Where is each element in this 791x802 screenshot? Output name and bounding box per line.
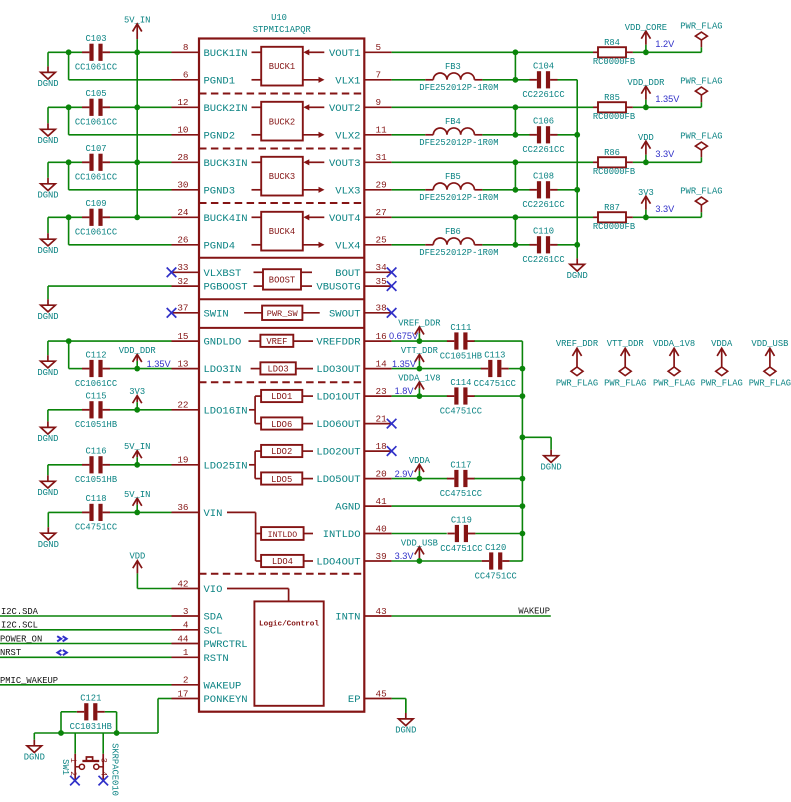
svg-text:DGND: DGND <box>541 463 562 473</box>
junction VDD <box>643 159 649 165</box>
ground DGND <box>37 286 58 322</box>
svg-text:BUCK1: BUCK1 <box>269 62 295 72</box>
wire LDO16IN <box>110 409 172 411</box>
svg-text:BUCK3: BUCK3 <box>269 172 295 182</box>
pin 28 BUCK3IN <box>172 152 248 170</box>
svg-text:C114: C114 <box>450 378 471 388</box>
wire BUCK input row C105 <box>110 106 172 108</box>
wire C121 left leg <box>61 712 77 733</box>
svg-text:BUCK2IN: BUCK2IN <box>204 103 248 115</box>
svg-text:DGND: DGND <box>38 540 59 550</box>
svg-text:VDD_USB: VDD_USB <box>401 538 438 548</box>
pin 38 SWOUT <box>329 303 392 321</box>
junction <box>417 476 423 482</box>
wire VOUT2 to VLX2 <box>514 107 516 135</box>
power symbol VDDA with PWR_FLAG <box>701 339 743 389</box>
svg-text:LDO6: LDO6 <box>271 420 292 430</box>
wire FB5 out <box>482 189 529 191</box>
resistor R86 <box>593 148 635 177</box>
svg-text:R86: R86 <box>604 148 620 158</box>
wire VOUT1 to VLX1 <box>514 52 516 80</box>
svg-text:CC2261CC: CC2261CC <box>522 90 564 100</box>
svg-text:SKRPACE010: SKRPACE010 <box>110 743 120 796</box>
svg-text:15: 15 <box>177 331 188 342</box>
svg-text:VDD_DDR: VDD_DDR <box>627 78 665 88</box>
svg-text:LDO3: LDO3 <box>268 365 289 375</box>
capacitor C120 <box>475 543 517 582</box>
wire PONKEYN <box>34 699 171 734</box>
svg-text:1.35V: 1.35V <box>392 359 417 369</box>
internal block LDO1 <box>261 390 313 402</box>
voltage label 0.675V <box>389 331 419 341</box>
ferrite bead FB4 <box>419 117 498 148</box>
svg-text:I2C.SCL: I2C.SCL <box>1 621 38 631</box>
power symbol 3V3 <box>129 387 145 410</box>
internal block BUCK1 <box>252 47 325 86</box>
junction <box>134 462 140 468</box>
wire VOUT4 <box>392 216 593 218</box>
svg-text:2: 2 <box>68 771 78 776</box>
svg-text:C121: C121 <box>80 694 101 704</box>
no-connect X <box>387 281 397 291</box>
svg-text:9: 9 <box>376 97 382 108</box>
pin 11 VLX2 <box>335 125 391 143</box>
svg-text:LDO4: LDO4 <box>272 557 293 567</box>
svg-text:VOUT1: VOUT1 <box>329 48 361 60</box>
junction <box>66 49 72 55</box>
svg-text:5: 5 <box>376 42 382 53</box>
junction <box>520 434 526 440</box>
svg-text:PWR_FLAG: PWR_FLAG <box>680 21 722 31</box>
svg-text:DGND: DGND <box>395 726 416 736</box>
junction <box>58 730 64 736</box>
voltage label 3.3V <box>655 149 675 159</box>
svg-text:38: 38 <box>376 303 387 314</box>
wire LDO25IN <box>110 464 172 466</box>
pin 41 AGND <box>335 496 391 514</box>
power symbol 5V_IN <box>124 490 150 513</box>
svg-text:INTLDO: INTLDO <box>323 529 361 541</box>
svg-text:DGND: DGND <box>37 312 58 322</box>
ground DGND <box>395 699 416 736</box>
wire LDO caps ground bus <box>521 341 523 561</box>
wire NRST <box>0 656 172 658</box>
svg-text:C103: C103 <box>85 34 106 44</box>
svg-text:VBUSOTG: VBUSOTG <box>316 282 360 294</box>
svg-text:C104: C104 <box>533 62 554 72</box>
pin 19 LDO25IN <box>172 455 248 473</box>
internal block INTLDO <box>261 527 313 540</box>
svg-text:DGND: DGND <box>37 434 58 444</box>
svg-text:DGND: DGND <box>37 488 58 498</box>
svg-text:40: 40 <box>376 523 387 534</box>
junction 5V_IN bus <box>134 49 140 55</box>
wire PGND drop C103 <box>68 52 70 80</box>
svg-text:3: 3 <box>99 758 109 763</box>
svg-text:PWR_FLAG: PWR_FLAG <box>653 379 695 389</box>
power symbol VDD_CORE <box>625 23 667 52</box>
wire BUCK input row C103 <box>110 51 172 53</box>
svg-text:VTT_DDR: VTT_DDR <box>401 346 439 356</box>
wire C117 to bus <box>474 478 522 480</box>
svg-text:C120: C120 <box>485 543 506 553</box>
svg-text:44: 44 <box>177 633 189 644</box>
svg-text:WAKEUP: WAKEUP <box>204 680 242 692</box>
pin 20 LDO5OUT <box>316 468 391 486</box>
internal block BUCK3 <box>252 157 325 196</box>
svg-text:1: 1 <box>183 647 189 658</box>
pin 15 GNDLDO <box>172 331 242 349</box>
wire PGND drop C109 <box>68 217 70 245</box>
power flag PWR_FLAG <box>680 21 722 52</box>
junction <box>520 393 526 399</box>
pin 16 VREFDDR <box>316 331 391 349</box>
pin 17 PONKEYN <box>172 688 248 706</box>
wire C105 left <box>48 106 82 108</box>
svg-text:LDO5: LDO5 <box>271 475 292 485</box>
svg-text:BUCK4IN: BUCK4IN <box>204 213 248 225</box>
wire PGND return <box>69 189 172 191</box>
svg-text:22: 22 <box>177 400 188 411</box>
ground DGND <box>24 733 45 763</box>
svg-text:C108: C108 <box>533 172 554 182</box>
internal block VREF <box>249 335 314 347</box>
svg-text:26: 26 <box>177 235 188 246</box>
wire VOUT3 to VLX3 <box>514 162 516 190</box>
capacitor C105 <box>75 89 117 128</box>
ground DGND <box>37 410 58 444</box>
power flag PWR_FLAG <box>680 76 722 107</box>
svg-text:PGND2: PGND2 <box>204 130 236 142</box>
ferrite bead FB5 <box>419 172 498 203</box>
no-connect X <box>167 268 177 278</box>
pin 31 VOUT3 <box>329 152 392 170</box>
svg-text:VREF_DDR: VREF_DDR <box>398 318 441 328</box>
junction <box>417 338 423 344</box>
svg-text:C117: C117 <box>450 460 471 470</box>
wire INTN WAKEUP <box>392 615 551 617</box>
svg-text:C107: C107 <box>85 144 106 154</box>
wire C108 to ground bus <box>558 189 578 191</box>
svg-text:RC0000FB: RC0000FB <box>593 112 635 122</box>
net label POWER_ON <box>0 634 67 644</box>
wire LDO1OUT <box>392 395 448 397</box>
svg-text:24: 24 <box>177 207 189 218</box>
svg-text:3: 3 <box>183 606 189 617</box>
svg-text:C106: C106 <box>533 117 554 127</box>
svg-text:30: 30 <box>177 180 188 191</box>
svg-text:U10: U10 <box>271 13 287 23</box>
svg-text:1.35V: 1.35V <box>655 94 680 104</box>
svg-text:DGND: DGND <box>37 136 58 146</box>
junction <box>574 187 580 193</box>
svg-text:PWR_FLAG: PWR_FLAG <box>680 76 722 86</box>
pin 2 WAKEUP <box>172 675 242 693</box>
pin 10 PGND2 <box>172 125 236 143</box>
svg-text:VREF: VREF <box>266 337 287 347</box>
svg-text:VREFDDR: VREFDDR <box>316 337 361 349</box>
svg-text:C118: C118 <box>85 494 106 504</box>
pin 37 SWIN <box>172 303 229 321</box>
junction <box>66 104 72 110</box>
svg-text:RSTN: RSTN <box>204 653 229 665</box>
internal block Logic/Control <box>254 601 323 705</box>
internal block LDO2 <box>261 445 313 457</box>
svg-text:SCL: SCL <box>204 625 223 637</box>
wire VOUT2 <box>392 106 593 108</box>
svg-text:C111: C111 <box>450 323 471 333</box>
ground DGND <box>567 245 588 281</box>
svg-text:CC1061CC: CC1061CC <box>75 173 117 183</box>
svg-text:17: 17 <box>177 688 188 699</box>
power flag PWR_FLAG <box>680 131 722 162</box>
pin 22 LDO16IN <box>172 400 248 418</box>
svg-text:13: 13 <box>177 358 188 369</box>
pin 35 VBUSOTG <box>316 276 391 294</box>
internal block BOOST <box>254 269 313 289</box>
power flag PWR_FLAG <box>680 186 722 217</box>
no-connect X <box>70 776 80 786</box>
svg-text:FB4: FB4 <box>445 117 461 127</box>
no-connect X <box>387 419 397 429</box>
voltage label 3.3V <box>655 204 675 214</box>
svg-text:BUCK1IN: BUCK1IN <box>204 48 248 60</box>
junction <box>513 77 519 83</box>
voltage label 3.3V <box>395 551 415 561</box>
pin 29 VLX3 <box>335 180 391 198</box>
svg-text:VIN: VIN <box>204 508 223 520</box>
IC U10 STPMIC1APQR body <box>199 39 364 712</box>
pin 3 SDA <box>172 606 224 624</box>
capacitor C104 <box>522 62 564 101</box>
svg-text:I2C.SDA: I2C.SDA <box>1 607 39 617</box>
IC internal separator line <box>199 327 364 329</box>
wire VLX4 <box>392 244 426 246</box>
ground DGND <box>37 341 58 378</box>
svg-text:DFE252012P-1R0M: DFE252012P-1R0M <box>419 193 498 203</box>
pin 6 PGND1 <box>172 70 236 88</box>
pin 12 BUCK2IN <box>172 97 248 115</box>
svg-text:CC4751CC: CC4751CC <box>474 379 516 389</box>
wire VREFDDR <box>392 340 448 342</box>
svg-text:12: 12 <box>177 97 188 108</box>
svg-text:INTLDO: INTLDO <box>268 531 298 540</box>
capacitor C114 <box>440 378 482 417</box>
svg-text:C109: C109 <box>85 199 106 209</box>
internal block BUCK4 <box>252 212 325 251</box>
voltage label 2.9V <box>395 469 415 479</box>
svg-text:PGND3: PGND3 <box>204 185 236 197</box>
wire BUCK input row C107 <box>110 161 172 163</box>
pin 34 BOUT <box>335 262 391 280</box>
pin 13 LDO3IN <box>172 358 242 376</box>
power symbol 5V_IN top <box>124 15 150 52</box>
capacitor C108 <box>522 172 564 211</box>
junction <box>417 366 423 372</box>
svg-text:PWR_FLAG: PWR_FLAG <box>749 379 791 389</box>
wire VDD_CORE <box>633 51 702 53</box>
wire PGND drop C105 <box>68 107 70 135</box>
wire PMIC_WAKEUP <box>0 684 172 686</box>
junction <box>513 187 519 193</box>
junction 5V_IN bus <box>134 214 140 220</box>
svg-text:6: 6 <box>183 70 189 81</box>
internal block LDO3 <box>251 362 313 374</box>
junction 3V3 <box>643 214 649 220</box>
svg-text:BOUT: BOUT <box>335 268 360 280</box>
svg-text:3.3V: 3.3V <box>655 149 675 159</box>
svg-text:INTN: INTN <box>335 612 360 624</box>
junction <box>513 159 519 165</box>
wire C115 left <box>48 409 82 411</box>
svg-text:RC0000FB: RC0000FB <box>593 57 635 67</box>
ferrite bead FB3 <box>419 62 498 93</box>
wire FB6 out <box>482 244 529 246</box>
wire PGND return <box>69 79 172 81</box>
wire PGND return <box>69 244 172 246</box>
svg-text:25: 25 <box>376 235 387 246</box>
svg-text:VLX2: VLX2 <box>335 130 360 142</box>
wire DGND bus right of output caps <box>576 80 578 245</box>
pin 42 VIO <box>172 578 223 596</box>
wire 5V_IN vertical bus <box>136 52 138 217</box>
wire VOUT4 to VLX4 <box>514 217 516 245</box>
svg-text:CC4751CC: CC4751CC <box>75 523 117 533</box>
capacitor C113 <box>474 350 516 389</box>
capacitor C117 <box>440 460 482 499</box>
svg-text:BUCK4: BUCK4 <box>269 227 295 237</box>
svg-text:5V_IN: 5V_IN <box>124 490 150 500</box>
power symbol VTT_DDR <box>401 346 439 369</box>
wire VIO <box>137 588 171 590</box>
wire C119 to bus <box>475 533 522 535</box>
svg-text:DGND: DGND <box>37 79 58 89</box>
no-connect X <box>99 776 109 786</box>
svg-text:PWR_FLAG: PWR_FLAG <box>604 379 646 389</box>
no-connect X <box>387 268 397 278</box>
svg-text:DGND: DGND <box>567 271 588 281</box>
capacitor C109 <box>75 199 117 238</box>
svg-text:41: 41 <box>376 496 388 507</box>
svg-text:3.3V: 3.3V <box>655 204 675 214</box>
ground DGND <box>38 512 59 550</box>
junction <box>66 214 72 220</box>
capacitor C119 <box>440 515 482 554</box>
wire C107 left <box>48 161 82 163</box>
pin 14 LDO3OUT <box>316 358 391 376</box>
svg-text:LDO1: LDO1 <box>271 392 292 402</box>
svg-text:VDD_DDR: VDD_DDR <box>119 346 157 356</box>
capacitor C118 <box>75 494 117 533</box>
junction 5V_IN bus <box>134 104 140 110</box>
svg-text:VOUT2: VOUT2 <box>329 103 361 115</box>
svg-text:32: 32 <box>177 276 188 287</box>
svg-text:CC2261CC: CC2261CC <box>522 255 564 265</box>
IC internal separator line <box>199 573 364 575</box>
internal block LDO6 <box>261 417 313 429</box>
svg-text:RC0000FB: RC0000FB <box>593 222 635 232</box>
pin 32 PGBOOST <box>172 276 248 294</box>
wire VOUT1 <box>392 51 593 53</box>
svg-text:FB5: FB5 <box>445 172 461 182</box>
svg-text:VLX3: VLX3 <box>335 185 360 197</box>
svg-text:NRST: NRST <box>0 648 21 658</box>
svg-text:PONKEYN: PONKEYN <box>204 694 248 706</box>
wire LDO5OUT <box>392 478 448 480</box>
wire I2C.SDA <box>0 615 172 617</box>
svg-text:CC1031HB: CC1031HB <box>70 722 112 732</box>
junction 5V_IN bus <box>134 159 140 165</box>
resistor R84 <box>593 38 635 67</box>
svg-text:LDO3OUT: LDO3OUT <box>316 364 360 376</box>
pin 5 VOUT1 <box>329 42 392 60</box>
wire C109 left <box>48 216 82 218</box>
svg-text:FB3: FB3 <box>445 62 461 72</box>
junction <box>520 366 526 372</box>
svg-text:PGND1: PGND1 <box>204 75 236 87</box>
junction <box>513 49 519 55</box>
svg-text:C116: C116 <box>85 447 106 457</box>
pin 40 INTLDO <box>323 523 392 541</box>
svg-text:PWR_FLAG: PWR_FLAG <box>680 186 722 196</box>
pin 44 PWRCTRL <box>172 633 248 651</box>
voltage label 1.35V <box>392 359 417 369</box>
svg-text:43: 43 <box>376 606 387 617</box>
svg-text:27: 27 <box>376 207 387 218</box>
ground DGND <box>37 465 58 498</box>
svg-text:DGND: DGND <box>37 191 58 201</box>
svg-text:42: 42 <box>177 578 188 589</box>
svg-text:PWRCTRL: PWRCTRL <box>204 639 248 651</box>
wire LDO3OUT <box>392 368 482 370</box>
svg-text:CC1051HB: CC1051HB <box>75 475 117 485</box>
junction VDD_CORE <box>643 49 649 55</box>
IC internal separator line <box>199 298 364 300</box>
junction <box>513 104 519 110</box>
ground DGND <box>37 217 58 256</box>
svg-text:11: 11 <box>376 125 388 136</box>
power symbol VDD_DDR <box>119 346 157 369</box>
svg-text:31: 31 <box>376 152 388 163</box>
wire BUCK input row C109 <box>110 216 172 218</box>
svg-text:36: 36 <box>177 502 188 513</box>
svg-text:4: 4 <box>99 771 109 776</box>
power symbol VDD <box>638 133 654 162</box>
svg-text:3V3: 3V3 <box>129 387 145 397</box>
svg-text:CC1061CC: CC1061CC <box>75 379 117 389</box>
junction <box>520 531 526 537</box>
svg-text:VDDA: VDDA <box>409 456 431 466</box>
svg-text:DGND: DGND <box>24 753 45 763</box>
wire I2C.SCL <box>0 629 172 631</box>
junction <box>417 558 423 564</box>
svg-text:LDO2OUT: LDO2OUT <box>316 447 360 459</box>
wire VDD_DDR <box>633 106 702 108</box>
wire C116 left <box>48 464 82 466</box>
pin 4 SCL <box>172 620 223 638</box>
IC internal separator line <box>199 381 364 383</box>
ferrite bead FB6 <box>419 227 498 258</box>
svg-text:18: 18 <box>376 441 387 452</box>
junction <box>417 393 423 399</box>
svg-text:R85: R85 <box>604 93 620 103</box>
svg-text:CC1061CC: CC1061CC <box>75 228 117 238</box>
junction <box>134 366 140 372</box>
internal bracket LDO25IN <box>249 451 261 479</box>
power symbol VDD at VIO <box>129 552 145 589</box>
wire C118 left <box>48 511 82 513</box>
net label I2C.SCL <box>1 621 38 631</box>
